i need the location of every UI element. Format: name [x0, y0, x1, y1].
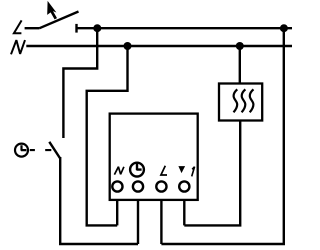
- label L: [14, 20, 22, 33]
- manual actuation arrow: [47, 1, 57, 20]
- wire N rail: [26, 45, 292, 47]
- label N: [11, 40, 25, 54]
- wire timer switch to clock terminal: [60, 157, 138, 244]
- timer device box U1: [110, 114, 198, 200]
- heater element squiggles: [234, 89, 254, 112]
- wire L-junction right to L terminal: [161, 28, 283, 244]
- terminal circle N: [112, 181, 122, 191]
- wire N-junction to N terminal: [87, 46, 128, 225]
- timer switch blade: [49, 142, 60, 159]
- wire L rail: [77, 27, 293, 29]
- terminal label N: [114, 167, 124, 175]
- terminal label 1: [192, 167, 195, 177]
- terminal lead load: [183, 200, 185, 226]
- node L-junction left: [93, 24, 101, 32]
- switch S1 fixed contact tick: [75, 24, 77, 33]
- terminal label L: [161, 166, 167, 175]
- switch S1 blade: [40, 12, 79, 29]
- heater E1 box: [219, 84, 262, 121]
- terminal circle clock: [133, 181, 143, 191]
- wire N-junction right to heater: [239, 46, 241, 84]
- terminal label load arrow: [178, 166, 185, 173]
- terminal circle load: [179, 181, 189, 191]
- node N-junction right: [236, 42, 244, 50]
- mechanical linkage dashes: [30, 149, 52, 151]
- terminal lead clock: [137, 200, 139, 244]
- node L-junction right: [280, 24, 288, 32]
- terminal circle L: [156, 181, 166, 191]
- node N-junction left: [124, 42, 132, 50]
- terminal clock symbol: [130, 163, 144, 177]
- wire L-junction to timer switch fixed contact: [63, 28, 97, 138]
- terminal lead L: [160, 200, 162, 244]
- terminal lead N: [116, 200, 118, 226]
- timer clock symbol: [15, 144, 28, 157]
- wire L rail left stub: [25, 27, 40, 29]
- wire heater to load terminal: [184, 121, 240, 226]
